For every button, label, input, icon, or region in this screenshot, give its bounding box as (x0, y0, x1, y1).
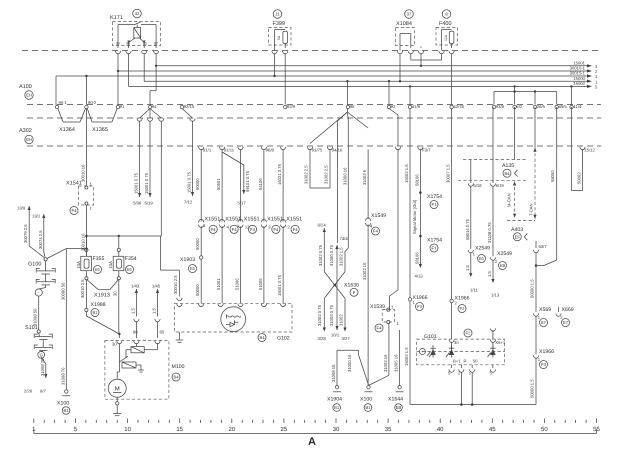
svg-text:A302: A302 (19, 128, 32, 134)
svg-text:1/43: 1/43 (131, 284, 140, 289)
alternator unit G102 (175, 303, 293, 342)
relay K171 (110, 9, 161, 54)
svg-text:50: 50 (473, 359, 478, 364)
G101 bottom pins (448, 365, 496, 376)
svg-text:91/1: 91/1 (203, 148, 212, 153)
wire G100 to S101 (33, 296, 39, 330)
svg-text:F4: F4 (211, 227, 217, 232)
separator dashed line mid1 (y=104.5) (27, 104, 601, 106)
wire bus 30015-1 tap down to pin 90-2 (85, 75, 87, 105)
svg-text:1/45: 1/45 (152, 284, 161, 289)
svg-text:15002: 15002 (573, 81, 585, 86)
svg-text:50000 1.5: 50000 1.5 (530, 279, 535, 298)
svg-text:59101 0.75: 59101 0.75 (245, 170, 250, 192)
svg-text:M100: M100 (172, 364, 185, 370)
svg-text:74/4: 74/4 (340, 236, 349, 241)
svg-text:91/11: 91/11 (224, 148, 235, 153)
svg-text:F1: F1 (432, 246, 438, 251)
svg-text:87: 87 (154, 41, 158, 45)
control unit A135 region (458, 160, 527, 181)
svg-text:51001: 51001 (216, 278, 221, 290)
svg-text:63/7: 63/7 (539, 244, 548, 249)
jumper loop 31002 between pins 91/75 and 94/16 (304, 149, 331, 188)
wire 50000 down right (530, 252, 537, 312)
svg-text:31008 70: 31008 70 (60, 367, 65, 385)
wire X1084 left to bus 15000 (399, 53, 401, 82)
valve connector X1551-13 (235, 217, 260, 304)
svg-text:X6+1: X6+1 (495, 340, 506, 345)
svg-text:F4: F4 (273, 227, 279, 232)
wire X1541 down to battery node (80, 205, 87, 256)
svg-text:3/27: 3/27 (342, 336, 351, 341)
fan wires from pin 94 (137, 109, 164, 122)
svg-text:X1364: X1364 (59, 127, 75, 133)
svg-text:X1084: X1084 (396, 21, 412, 27)
svg-text:30: 30 (454, 340, 459, 345)
svg-text:1.5: 1.5 (465, 265, 470, 271)
svg-text:F400: F400 (439, 21, 452, 27)
pin 96/1 (238, 147, 243, 150)
wire F399 right to pin 92/9 (284, 53, 286, 104)
wire F399 left to bus 30015-1 (273, 53, 275, 77)
svg-text:31002 1.5: 31002 1.5 (339, 247, 344, 266)
pin 6/19 (490, 183, 504, 188)
svg-text:58014 0.75: 58014 0.75 (465, 218, 470, 240)
pin 41-/4 (570, 105, 573, 108)
M100 ground pin (113, 397, 121, 415)
svg-text:B1: B1 (334, 405, 340, 410)
pin 91/11 (220, 147, 225, 150)
svg-text:31000 16: 31000 16 (347, 354, 352, 372)
svg-text:X1754: X1754 (427, 238, 442, 244)
svg-text:31002 16: 31002 16 (383, 354, 388, 372)
svg-text:B1: B1 (63, 408, 69, 413)
svg-text:6/19: 6/19 (145, 201, 154, 206)
svg-text:F3/7: F3/7 (422, 148, 431, 153)
svg-text:1/13: 1/13 (491, 293, 500, 298)
svg-text:B1: B1 (95, 267, 101, 272)
svg-text:X1630: X1630 (344, 283, 359, 289)
svg-text:51005: 51005 (258, 278, 263, 290)
pin 93/8 (492, 105, 495, 108)
svg-text:X1903: X1903 (180, 257, 195, 263)
svg-text:X1539: X1539 (370, 304, 385, 310)
svg-text:4/13: 4/13 (415, 274, 424, 279)
wire relay pin87 to bus 15001 and pin 94 (150, 53, 157, 104)
svg-text:F4: F4 (293, 227, 299, 232)
wire pin 92/15 to arrow 7/12 (182, 109, 195, 205)
control unit A403 (507, 221, 535, 241)
svg-text:B+1: B+1 (453, 359, 461, 364)
svg-text:51006: 51006 (235, 278, 240, 290)
svg-text:54106: 54106 (258, 178, 263, 190)
wire relay pin30 to X1365 pin 91 (117, 53, 119, 104)
svg-text:41/9: 41/9 (412, 104, 421, 109)
wire fan 96 to splice upper (336, 121, 338, 243)
svg-text:31008 16: 31008 16 (331, 364, 336, 382)
svg-text:R: R (464, 359, 467, 364)
connector X1966 pin2 (450, 296, 470, 340)
svg-text:F355: F355 (93, 256, 105, 262)
svg-text:31000 0.75: 31000 0.75 (329, 244, 334, 266)
svg-text:45: 45 (489, 426, 496, 433)
arrow 1/43 feed to M100 (130, 284, 139, 339)
svg-text:B1: B1 (127, 267, 133, 272)
svg-text:30: 30 (113, 291, 118, 296)
svg-text:F4: F4 (232, 227, 238, 232)
connector X1365 (85, 100, 117, 133)
wire 15001 to arrow 5/36 (133, 121, 142, 206)
fan wires from pin 96 (310, 80, 368, 144)
wire F400 left up-tie (441, 53, 443, 60)
wire 15002 from pin 41/9 to X1966-1 (404, 85, 411, 297)
svg-text:50000: 50000 (195, 178, 200, 190)
wire X1539 to ground X100 (369, 324, 389, 386)
svg-text:31003 0.75: 31003 0.75 (329, 304, 334, 326)
svg-text:50501: 50501 (216, 178, 221, 190)
svg-text:B8: B8 (500, 263, 506, 268)
pin 26/5 (533, 105, 536, 108)
svg-text:F4: F4 (72, 208, 78, 213)
pin 41/9 (408, 105, 411, 108)
svg-text:26/5: 26/5 (537, 104, 546, 109)
ruler tick marks (34, 419, 597, 424)
wire 58050 from pin 45/5 (535, 107, 557, 267)
svg-text:55: 55 (593, 426, 600, 433)
wire 31108 to X2549-2 (487, 186, 493, 256)
wire pin 26/5 into T-CAN (534, 107, 536, 148)
svg-text:15002 1.5: 15002 1.5 (404, 164, 409, 183)
svg-text:30: 30 (112, 342, 117, 347)
svg-text:G102: G102 (277, 336, 290, 342)
svg-text:37: 37 (407, 12, 412, 17)
wire tie to X100 (337, 350, 369, 385)
svg-text:A135: A135 (502, 163, 514, 169)
svg-text:94: 94 (152, 104, 157, 109)
svg-text:15: 15 (176, 426, 183, 433)
svg-text:13/9: 13/9 (17, 206, 26, 211)
svg-text:25: 25 (281, 426, 288, 433)
svg-text:F354: F354 (125, 256, 137, 262)
arrow 13/1 (32, 214, 45, 257)
ruler numbers (32, 426, 600, 433)
svg-text:X100: X100 (360, 397, 372, 403)
svg-text:G: G (40, 353, 43, 358)
svg-text:B1: B1 (190, 266, 196, 271)
svg-text:EH: EH (26, 93, 32, 98)
svg-text:X1644: X1644 (388, 397, 403, 403)
pin 92/15 (180, 105, 183, 108)
wire 30010 from pin 90-2 down through X1541 (80, 109, 86, 187)
wire X1549 to X1539 (362, 224, 368, 385)
wire bus 15002 tap to pin 41-/4 (570, 85, 572, 104)
svg-text:X1966: X1966 (539, 349, 554, 355)
svg-text:15002 1.5: 15002 1.5 (404, 347, 409, 366)
svg-text:31002 2.5: 31002 2.5 (324, 165, 329, 184)
svg-text:90-2: 90-2 (88, 100, 97, 105)
svg-text:92/15: 92/15 (184, 104, 195, 109)
svg-text:S101: S101 (25, 325, 38, 331)
connector X1988 (85, 280, 121, 335)
svg-text:Signal Motor (Out): Signal Motor (Out) (412, 199, 417, 234)
connector pins row on y=146 (199, 147, 596, 153)
valve connector X1551-1 (199, 217, 221, 234)
svg-text:6/19: 6/19 (496, 183, 505, 188)
battery G100 (28, 249, 66, 297)
pin 91/1 (199, 147, 204, 150)
splice X1754 upper (419, 191, 442, 208)
svg-text:20: 20 (228, 426, 235, 433)
svg-text:X100: X100 (57, 401, 69, 407)
svg-text:X1988: X1988 (91, 302, 106, 308)
svg-text:31008 70: 31008 70 (40, 358, 45, 376)
fuse F354 (108, 236, 137, 280)
svg-text:X1551: X1551 (204, 217, 220, 223)
svg-text:15001 0.75: 15001 0.75 (277, 274, 282, 296)
svg-text:EF: EF (515, 234, 521, 239)
svg-text:92: 92 (391, 104, 396, 109)
svg-text:X1551: X1551 (286, 217, 302, 223)
M-CAN dashed link (507, 182, 517, 218)
svg-text:5/17: 5/17 (238, 201, 247, 206)
svg-text:B4: B4 (259, 335, 265, 340)
pin 42/78 (450, 105, 453, 108)
svg-text:96/8: 96/8 (266, 148, 275, 153)
wire battery node to ground X100 (60, 249, 66, 390)
svg-text:85: 85 (143, 41, 147, 45)
pin 5/2 (513, 105, 516, 108)
svg-text:1.5: 1.5 (487, 271, 492, 277)
svg-text:42/78: 42/78 (453, 104, 464, 109)
separator dashed line mid2 (y=118) (27, 117, 601, 119)
svg-text:30074 2.5: 30074 2.5 (38, 230, 43, 249)
svg-text:13/1: 13/1 (32, 214, 41, 219)
svg-text:5/2: 5/2 (516, 104, 522, 109)
jumper loop right between 41-/4 and 15/12 (572, 107, 583, 191)
starter motor unit M100 (105, 340, 185, 399)
svg-text:30007 1.5: 30007 1.5 (446, 164, 451, 183)
svg-text:1.5: 1.5 (152, 308, 157, 314)
wire from pin 96/1 down (240, 149, 242, 221)
bus wire 30010-1 (L2) (119, 66, 599, 75)
wire F354 to M100 pin 30 (118, 280, 121, 338)
branch 59101 to arrow 5/17 (222, 152, 250, 206)
valve connector X1551-4 (216, 217, 241, 304)
svg-text:30010 2.5: 30010 2.5 (173, 275, 178, 294)
svg-text:31108 0.75: 31108 0.75 (487, 222, 492, 243)
wire to ground X1644 (394, 330, 400, 386)
svg-text:A403: A403 (511, 227, 523, 233)
pin 6/18 (468, 183, 482, 188)
wire 30007 from pin 42/78 to X1966-2 (446, 109, 452, 300)
ground connector X1904 (327, 350, 342, 411)
svg-text:31000 16: 31000 16 (342, 167, 347, 185)
wire 15021 from pin 91/7 (277, 149, 283, 221)
svg-text:F: F (353, 290, 356, 295)
wire from pin 92 branch into X1539 (390, 149, 398, 309)
pin 91/75 (307, 147, 312, 150)
svg-text:X669: X669 (562, 307, 574, 313)
svg-text:30: 30 (333, 426, 340, 433)
svg-text:T-CAN: T-CAN (529, 203, 534, 216)
wire 54106 from pin 96/8 (258, 149, 264, 221)
svg-text:B1: B1 (365, 405, 371, 410)
svg-text:42: 42 (135, 11, 140, 16)
svg-text:58050: 58050 (550, 170, 555, 182)
svg-text:5A: 5A (277, 35, 281, 40)
pin 92 (387, 105, 390, 108)
pin F3/7 (418, 147, 423, 150)
right sub-bus tie above pins 93/8 5/2 26/5 45/5 (494, 85, 557, 104)
svg-text:F4: F4 (377, 326, 383, 331)
svg-text:31002 6: 31002 6 (362, 169, 367, 185)
svg-text:31002 2.5: 31002 2.5 (304, 165, 309, 184)
svg-text:X569: X569 (539, 307, 551, 313)
arrow 13/9 (17, 206, 45, 258)
connector X2549-1 (465, 246, 490, 293)
svg-text:6/18: 6/18 (473, 183, 482, 188)
svg-text:86: 86 (133, 330, 138, 335)
svg-text:B4: B4 (173, 375, 179, 380)
pin 45/5 (555, 105, 558, 108)
wire X1551-1 to G102 with connector X1903 (180, 226, 203, 303)
svg-text:31002 0.75: 31002 0.75 (318, 244, 323, 266)
bus wire 15000 (L4) (144, 76, 598, 85)
svg-text:41/4: 41/4 (573, 104, 582, 109)
battery tie bus (85, 235, 161, 237)
splice X1754 lower (419, 235, 442, 252)
svg-text:15001 0.75: 15001 0.75 (134, 172, 139, 194)
svg-text:15A: 15A (76, 261, 81, 269)
wire A135 to pin 6/18 (470, 160, 472, 184)
wire bus 30015-1 down to pin 90-1 (55, 76, 57, 105)
svg-text:X1365: X1365 (92, 127, 108, 133)
svg-text:40: 40 (437, 426, 444, 433)
connector X1913 (80, 279, 118, 299)
pin 63/7 (533, 241, 547, 253)
svg-text:F1: F1 (432, 202, 438, 207)
svg-text:10: 10 (124, 426, 131, 433)
svg-text:F2: F2 (466, 331, 472, 336)
svg-text:G100: G100 (28, 262, 41, 268)
svg-text:A: A (308, 436, 316, 448)
wire relay pin86 to bus 15002 (128, 53, 130, 86)
svg-text:M: M (115, 386, 120, 393)
svg-text:15/12: 15/12 (584, 148, 595, 153)
connector X1549 (366, 213, 387, 235)
wire 58014 to X2549-1 (465, 186, 471, 249)
svg-text:58106: 58106 (414, 174, 419, 186)
wire F400 right to pin 42/78 (451, 53, 453, 104)
separator dashed line top (y=50.5) (22, 50, 601, 52)
pin 91 (116, 105, 119, 108)
svg-text:X1549: X1549 (371, 213, 386, 219)
svg-text:E7: E7 (541, 320, 547, 325)
svg-text:X2549: X2549 (475, 246, 490, 252)
svg-text:58106: 58106 (414, 252, 419, 264)
svg-text:5/36: 5/36 (133, 201, 142, 206)
svg-text:A100: A100 (19, 84, 32, 90)
pin 94 (148, 105, 151, 108)
connector X669 spare (556, 307, 574, 327)
arrow 74/4 into splice (329, 236, 348, 330)
battery positive link (66, 247, 87, 249)
wire 31002 from pin 96/2 to X1549 (362, 149, 368, 219)
svg-text:31002 16: 31002 16 (362, 262, 367, 280)
svg-text:3/28: 3/28 (318, 336, 327, 341)
svg-text:15021 0.75: 15021 0.75 (277, 163, 282, 185)
svg-text:B1: B1 (479, 256, 485, 261)
pin 94/16 (327, 147, 332, 150)
connector X569 (533, 307, 551, 327)
svg-text:35: 35 (385, 426, 392, 433)
svg-text:50: 50 (541, 426, 548, 433)
wire from pin 92 down (388, 80, 401, 150)
svg-text:50000: 50000 (195, 238, 200, 250)
svg-text:10A: 10A (444, 34, 448, 41)
svg-text:50000: 50000 (195, 284, 200, 296)
connector X1966 pin1 (404, 295, 463, 406)
wire relay pin85 to bus 15000 (143, 53, 145, 81)
svg-text:45/5: 45/5 (559, 104, 568, 109)
pin 96 (346, 105, 349, 108)
pin 96/8 (261, 147, 266, 150)
separator dashed line mid3 (y=146) (27, 145, 601, 147)
fuse F355 (76, 236, 105, 280)
wire X1084 right / F400 left tie (411, 53, 442, 67)
bus wire 30015-1 (L3) (56, 71, 598, 80)
svg-text:9/7: 9/7 (40, 389, 46, 394)
connector pins row on A100/A302 boundary (116, 104, 582, 109)
splice down arrows 3/28 10/1 3/27 (317, 298, 350, 341)
svg-text:85: 85 (160, 330, 165, 335)
svg-text:30079 2.5: 30079 2.5 (23, 224, 28, 243)
svg-text:F4: F4 (373, 229, 379, 234)
ruler scale at bottom (34, 429, 597, 434)
svg-text:31005 16: 31005 16 (394, 354, 399, 372)
svg-text:B4: B4 (504, 171, 510, 176)
svg-text:30080 50: 30080 50 (60, 282, 65, 300)
connector X2549-2 (487, 251, 512, 298)
svg-text:B1: B1 (92, 310, 98, 315)
generator unit G101 (417, 328, 506, 364)
svg-text:10/1: 10/1 (331, 333, 340, 338)
bus wire 15002 (L5) (129, 81, 599, 90)
svg-text:F3: F3 (541, 362, 547, 367)
svg-text:30010 16: 30010 16 (80, 164, 85, 182)
svg-text:X1754: X1754 (427, 194, 442, 200)
svg-text:EB: EB (396, 405, 402, 410)
svg-text:F4: F4 (250, 227, 256, 232)
svg-text:M-CAN: M-CAN (507, 193, 512, 207)
svg-text:1/11: 1/11 (470, 288, 479, 293)
connector X1966 pin3 (533, 349, 554, 369)
ground connector X100 (360, 386, 373, 412)
splice X1630 (324, 247, 359, 299)
svg-text:93/8: 93/8 (496, 104, 505, 109)
svg-text:31002 0.75: 31002 0.75 (317, 304, 322, 326)
svg-text:31002: 31002 (339, 314, 344, 326)
wire pin 5/2 into A135 (514, 107, 516, 160)
svg-text:X1551: X1551 (244, 217, 260, 223)
svg-text:K171: K171 (110, 15, 123, 21)
svg-text:15001 0.75: 15001 0.75 (187, 171, 192, 193)
wire 50000 from pin 91/1 to G102 with X1903 (195, 149, 201, 221)
T-CAN dashed link (529, 148, 537, 219)
pin 92/9 (284, 105, 287, 108)
ground connector X100 left (57, 390, 70, 415)
svg-text:91: 91 (120, 104, 125, 109)
